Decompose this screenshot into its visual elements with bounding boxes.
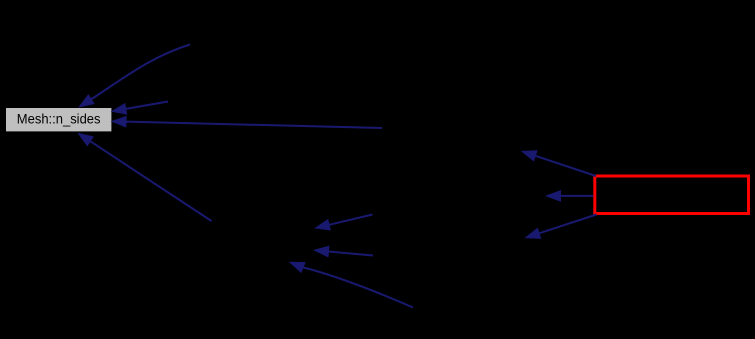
- svg-text:Mesh::n_sides: Mesh::n_sides: [17, 112, 101, 128]
- edge EB: into middle hidden node (lower): [315, 246, 374, 257]
- edge E1: curved edge from top caller into Mesh::n_sides top: [79, 45, 190, 107]
- edge EQ2: red node to hidden node (middle, horizontal): [547, 191, 594, 202]
- edge EQ1: red node to hidden node (upper): [522, 151, 596, 176]
- edge EC: curved edge from bottom-right hidden node: [290, 262, 413, 307]
- edge EQ3: red node to hidden node (lower): [526, 215, 597, 239]
- node Mesh::n_sides (gray root node): [6, 108, 111, 131]
- node (red outlined, truncated caller): [595, 176, 749, 214]
- edge EA: into middle hidden node (upper): [316, 215, 373, 230]
- edge E4: diagonal edge into Mesh::n_sides bottom: [79, 134, 212, 222]
- edge E2: short edge into Mesh::n_sides right (upper): [112, 102, 168, 115]
- edge E3: long edge into Mesh::n_sides right (lower): [112, 116, 382, 128]
